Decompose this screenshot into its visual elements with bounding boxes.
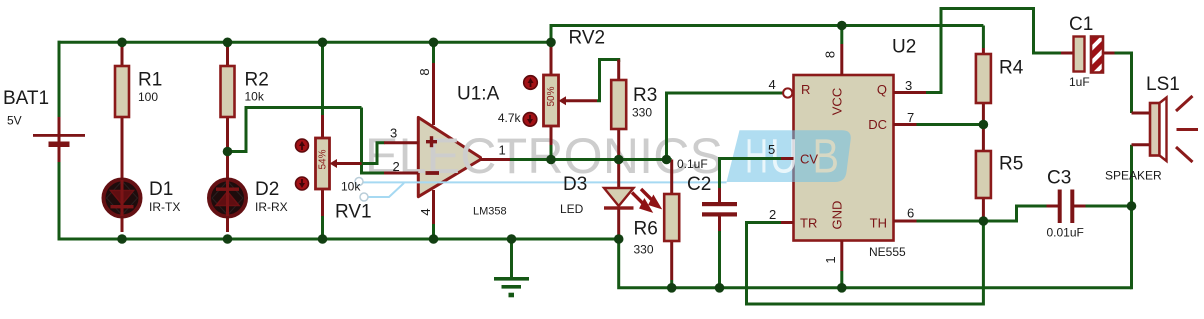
C3 leads: [1047, 205, 1059, 208]
capacitor C2: [702, 202, 737, 217]
wire bottom right drop and lower rail: [619, 238, 1132, 288]
wire C2 bottom: [718, 231, 721, 288]
555 vcc gnd pin stubs: [840, 44, 843, 75]
svg-text:VCC: VCC: [829, 88, 844, 115]
RV2 leads: [550, 42, 553, 75]
svg-text:R4: R4: [999, 58, 1024, 79]
R2 leads: [226, 42, 229, 66]
R1 leads: [121, 42, 124, 66]
svg-text:IR-TX: IR-TX: [149, 200, 180, 214]
svg-text:C2: C2: [687, 174, 711, 195]
svg-text:C3: C3: [1047, 168, 1071, 189]
svg-text:0.1uF: 0.1uF: [677, 157, 708, 171]
RV1 knob up: [296, 139, 309, 152]
svg-text:Q: Q: [877, 82, 887, 97]
wire top rail: [58, 41, 552, 44]
svg-text:4.7k: 4.7k: [498, 111, 522, 125]
svg-text:LED: LED: [560, 202, 584, 216]
RV1 leads: [321, 115, 324, 139]
svg-text:5V: 5V: [7, 114, 22, 128]
C2 leads: [718, 188, 721, 202]
wire bottom rail: [58, 238, 619, 241]
svg-text:330: 330: [632, 106, 652, 120]
speaker terminals: [1132, 112, 1151, 115]
watermark swoosh lines: [363, 182, 727, 197]
NE555 U2 body: [794, 75, 894, 241]
svg-text:LM358: LM358: [473, 206, 507, 218]
svg-text:10k: 10k: [341, 180, 361, 194]
resistor R1: [115, 66, 129, 117]
svg-text:D1: D1: [149, 179, 173, 200]
resistor R6: [664, 194, 679, 241]
battery BAT1: [33, 134, 85, 147]
wire DC to divider: [917, 123, 984, 126]
svg-text:RV2: RV2: [569, 28, 606, 49]
svg-text:10k: 10k: [245, 90, 265, 104]
wire vcc second rail: [551, 24, 983, 27]
svg-text:2: 2: [769, 207, 776, 222]
watermark electronics hub: [355, 128, 727, 201]
op-amp input pins: [384, 141, 418, 144]
op-amp minus mark: [426, 171, 440, 175]
svg-text:R1: R1: [138, 70, 162, 91]
speaker LS1: [1150, 98, 1167, 162]
wire to 555 reset pin4: [667, 93, 783, 160]
capacitor C1 polarized: [1074, 33, 1108, 81]
RV1 knob down: [296, 177, 309, 190]
svg-text:GND: GND: [829, 201, 844, 230]
LED D2 IR-RX: [209, 180, 246, 217]
resistor R5: [976, 151, 991, 198]
wire op-amp output line: [510, 158, 672, 161]
RV1 wiper wire: [334, 162, 362, 165]
wire speaker bottom to C3 and rail: [1130, 145, 1133, 290]
wire CV to C2: [720, 159, 782, 189]
wire RV2 wiper to R3 top: [597, 60, 619, 101]
svg-text:6: 6: [907, 206, 914, 221]
wire D2 sense branch: [228, 108, 362, 152]
svg-text:D3: D3: [563, 174, 587, 195]
svg-text:U1:A: U1:A: [457, 84, 500, 105]
potentiometer RV1 body: [316, 138, 338, 189]
wire ground stem: [510, 239, 513, 278]
wire RV1 bottom: [321, 216, 324, 239]
svg-text:BAT1: BAT1: [3, 88, 49, 109]
svg-text:4: 4: [418, 208, 433, 215]
battery leads: [58, 117, 61, 162]
wire RV1 top: [321, 42, 324, 115]
wire R6 bottom: [670, 280, 673, 288]
wire to op-amp pin2: [360, 172, 385, 175]
svg-text:LS1: LS1: [1146, 74, 1180, 95]
svg-text:C1: C1: [1069, 14, 1093, 35]
svg-text:7: 7: [907, 110, 914, 125]
op-amp plus mark: [426, 136, 437, 147]
svg-text:8: 8: [822, 51, 837, 58]
svg-text:1uF: 1uF: [1069, 75, 1090, 89]
wire RV2 bottom: [550, 145, 553, 160]
svg-text:IR-RX: IR-RX: [255, 200, 288, 214]
watermark hub badge: [727, 130, 851, 182]
svg-text:D2: D2: [255, 179, 279, 200]
op-amp power pins: [432, 63, 435, 125]
svg-text:NE555: NE555: [869, 245, 906, 259]
wire TH to C3: [917, 206, 1047, 221]
D3 emission arrows: [632, 189, 659, 210]
R4 leads: [982, 48, 985, 54]
svg-text:5: 5: [768, 142, 775, 157]
svg-text:U2: U2: [892, 37, 916, 58]
wire R4 top: [982, 26, 985, 49]
svg-text:3: 3: [905, 78, 912, 93]
red pin wires: [59, 42, 1150, 280]
op-amp U1 body: [418, 117, 480, 196]
wire op-amp pin4 bottom: [432, 224, 435, 239]
svg-text:1: 1: [823, 256, 838, 263]
svg-text:RV1: RV1: [335, 202, 372, 223]
svg-text:50%: 50%: [546, 86, 557, 106]
resistor R4: [976, 54, 991, 103]
watermark swoosh circles: [355, 178, 363, 186]
555 Q DC TH pin stubs: [894, 91, 927, 94]
svg-text:R5: R5: [999, 154, 1023, 175]
svg-text:R3: R3: [633, 85, 657, 106]
op-amp output pin: [481, 158, 511, 161]
ground symbol: [494, 277, 529, 297]
D3 leads: [617, 160, 620, 189]
resistor R2: [221, 66, 235, 117]
svg-text:TR: TR: [800, 216, 817, 231]
C1 leads: [1061, 52, 1074, 55]
svg-text:R2: R2: [245, 70, 269, 91]
svg-text:DC: DC: [868, 117, 887, 132]
svg-text:100: 100: [138, 90, 158, 104]
capacitor C3: [1058, 190, 1075, 224]
RV2 knob down: [523, 113, 537, 127]
RV2 knob up: [524, 76, 538, 90]
R6 leads: [670, 160, 673, 195]
R3 leads: [617, 60, 620, 81]
555 CV TR pin stubs: [781, 157, 794, 160]
svg-text:54%: 54%: [318, 149, 329, 169]
resistor R3: [611, 80, 626, 129]
555 reset pin bubble: [783, 88, 792, 97]
svg-text:SPEAKER: SPEAKER: [1105, 169, 1162, 183]
speaker sound waves: [1176, 96, 1198, 162]
wire 555 vcc top: [840, 26, 843, 45]
svg-text:R6: R6: [634, 219, 658, 240]
wire op-amp pin8 top: [432, 42, 435, 63]
svg-text:TH: TH: [870, 216, 887, 231]
RV2 wiper wire: [563, 99, 597, 102]
wire TR-TH lower loop: [747, 221, 984, 304]
svg-text:3: 3: [390, 126, 397, 141]
svg-text:1: 1: [499, 143, 506, 158]
LED D3: [604, 188, 634, 210]
svg-text:0.01uF: 0.01uF: [1047, 226, 1084, 240]
wire Q output to C1: [926, 9, 1061, 93]
wire 555 gnd bottom: [840, 271, 843, 288]
svg-text:CV: CV: [800, 152, 818, 167]
wire C3 right: [1086, 205, 1132, 208]
svg-text:8: 8: [417, 68, 432, 75]
wire C1 right to speaker: [1115, 53, 1132, 113]
svg-text:4: 4: [769, 77, 776, 92]
potentiometer RV2 body: [544, 75, 567, 126]
svg-text:2: 2: [393, 159, 400, 174]
R5 leads: [982, 125, 985, 152]
svg-text:330: 330: [634, 243, 654, 257]
svg-text:R: R: [801, 82, 810, 97]
LED D1 IR-TX: [104, 180, 141, 217]
wire to op-amp pin3: [362, 143, 385, 164]
wire battery column: [58, 41, 61, 117]
